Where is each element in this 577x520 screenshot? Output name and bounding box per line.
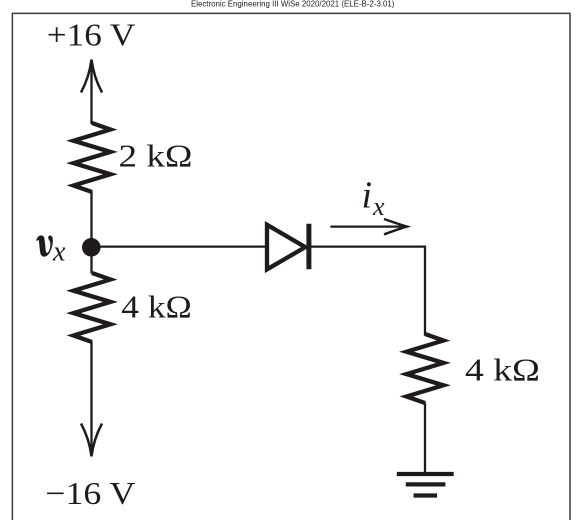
svg-text:4 kΩ: 4 kΩ	[465, 352, 540, 388]
node vx dot	[82, 238, 101, 257]
resistor R2 (left 4 kOhm)	[74, 273, 111, 342]
svg-text:+16 V: +16 V	[47, 17, 136, 53]
current arrow ix	[330, 219, 407, 234]
svg-text:−16 V: −16 V	[45, 475, 135, 511]
+16 V supply arrow	[81, 60, 102, 125]
diode D1 triangle	[267, 225, 305, 270]
svg-text:4 kΩ: 4 kΩ	[121, 289, 192, 325]
svg-text:2 kΩ: 2 kΩ	[119, 138, 193, 174]
diode D1 cathode bar	[306, 224, 311, 270]
wire diode cathode to right corner	[311, 247, 425, 336]
resistor R1	[74, 123, 111, 192]
wire node to diode anode	[92, 245, 268, 247]
wire node to resistor below	[90, 247, 92, 274]
-16 V supply arrow	[81, 342, 102, 457]
svg-text:Electronic Engineering III WiS: Electronic Engineering III WiSe 2020/202…	[191, 0, 395, 9]
node label vx	[37, 236, 53, 256]
svg-text:x: x	[52, 237, 66, 268]
resistor R3 (right 4 kOhm)	[407, 334, 444, 403]
wire R1 bottom to node	[90, 191, 92, 247]
svg-text:i: i	[362, 175, 373, 217]
ground symbol	[397, 474, 454, 496]
wire R3 to ground	[424, 403, 426, 473]
svg-text:x: x	[372, 192, 385, 221]
